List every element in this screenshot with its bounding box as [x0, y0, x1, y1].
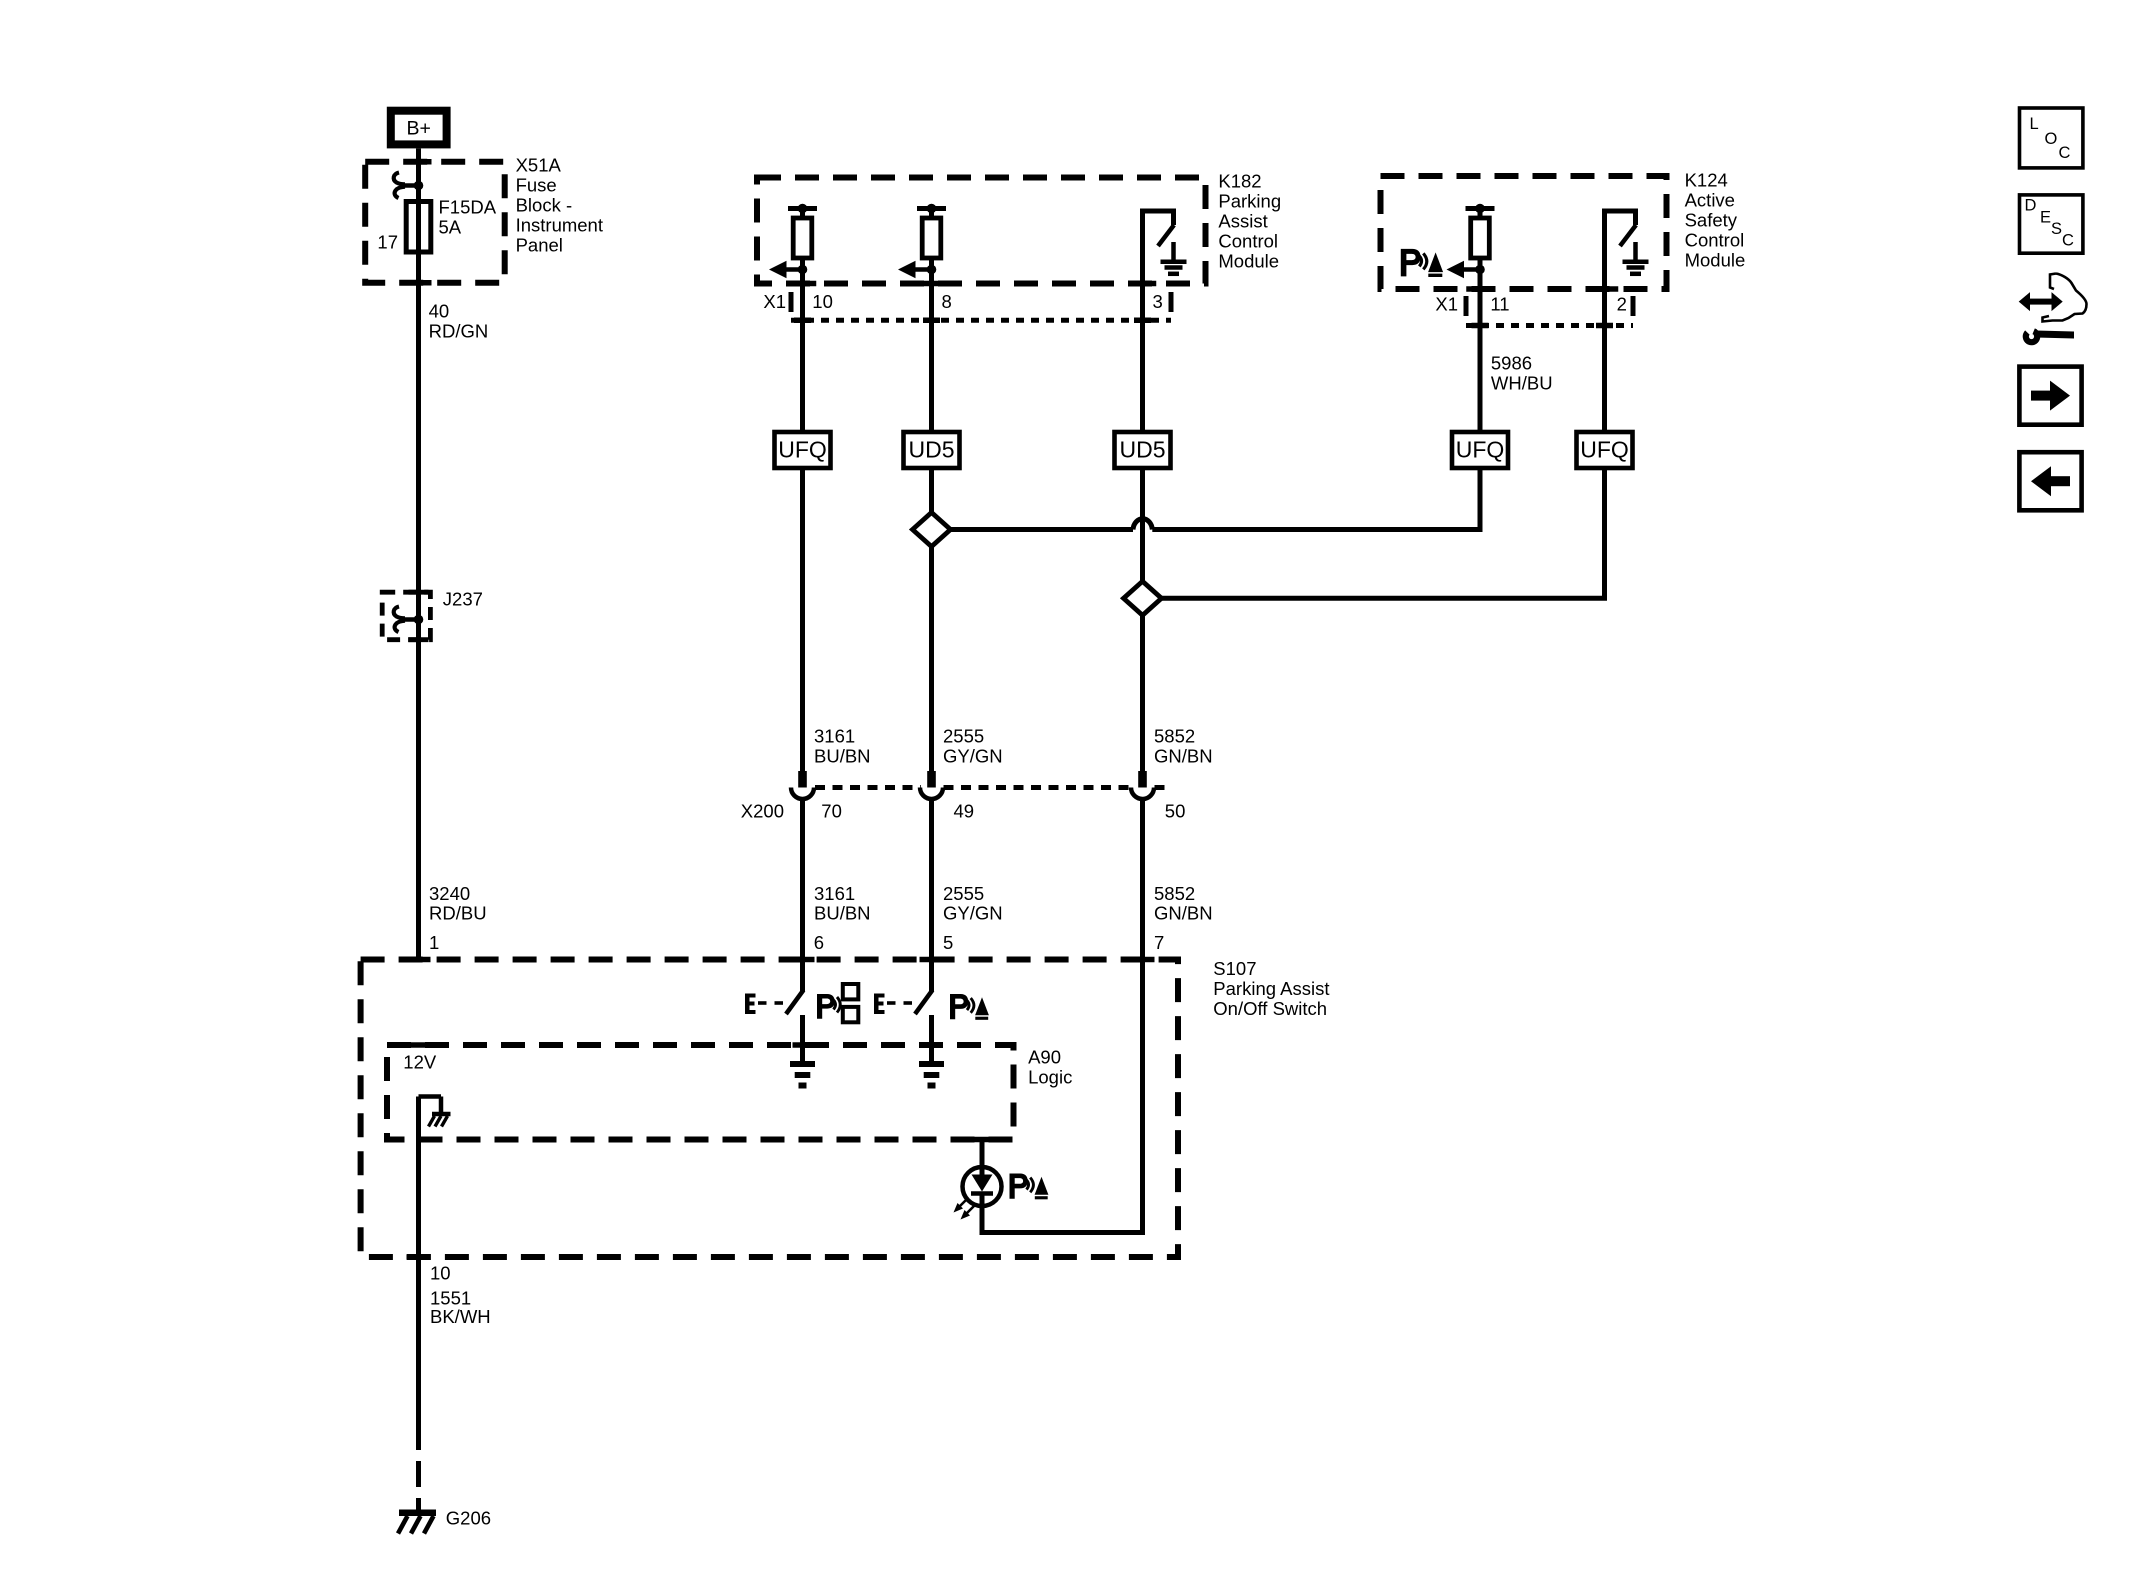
wire label 5852 GN/BN (lower): [1154, 883, 1213, 924]
output arrow K182 pin 8: [898, 261, 936, 279]
wire label 3240 RD/BU: [429, 883, 487, 924]
wire option label UD5 mid: [904, 432, 960, 468]
svg-text:GY/GN: GY/GN: [943, 903, 1003, 924]
splice diamond S1: [913, 513, 951, 547]
svg-text:10: 10: [430, 1263, 451, 1284]
svg-text:X1: X1: [763, 291, 786, 312]
svg-text:UFQ: UFQ: [778, 437, 827, 463]
svg-text:12V: 12V: [403, 1052, 437, 1073]
wire X200-70 to S107 pin 6: [800, 800, 805, 961]
fuse F15DA 5A: [406, 202, 431, 253]
icon P-sonar-triangle S107 switch 2: [950, 994, 989, 1020]
connector X200 terminal 49: [920, 771, 943, 799]
module K124 dashed box: [1381, 176, 1667, 289]
svg-text:On/Off Switch: On/Off Switch: [1213, 998, 1327, 1019]
internal switch to ground K182 pin 3: [1140, 209, 1174, 247]
svg-text:Active: Active: [1685, 190, 1735, 211]
svg-text:Module: Module: [1685, 250, 1746, 271]
svg-text:Control: Control: [1685, 230, 1745, 251]
terminal tap symbol X51A feed: [394, 173, 424, 199]
icon double arrow with wrench: [2019, 274, 2087, 346]
svg-text:1: 1: [429, 932, 439, 953]
S107 labels: [1213, 958, 1329, 1019]
internal driver resistor K182 pin 10: [788, 204, 817, 270]
svg-text:2555: 2555: [943, 726, 984, 747]
svg-text:RD/BU: RD/BU: [429, 903, 487, 924]
svg-text:GY/GN: GY/GN: [943, 746, 1003, 767]
connector X200 terminal 50: [1131, 771, 1154, 799]
svg-text:C: C: [2059, 144, 2071, 162]
internal switch to ground K124 pin 2: [1602, 209, 1636, 247]
junction J237 dashed box: [382, 592, 430, 640]
wire label 1551 BK/WH: [430, 1288, 491, 1327]
ground symbol under S107 camera: [919, 1064, 944, 1086]
wire K124 pin 2 to UFQ: [1602, 211, 1607, 432]
fuse block X51A dashed box: [365, 162, 505, 283]
svg-text:Logic: Logic: [1028, 1067, 1072, 1088]
chassis ground G206: [398, 1513, 436, 1534]
icon box arrow left: [2019, 452, 2081, 510]
E logic control symbol S107 camera: [874, 994, 912, 1015]
svg-text:BU/BN: BU/BN: [814, 903, 871, 924]
svg-text:3161: 3161: [814, 726, 855, 747]
A90 internal ground branch: [419, 1097, 442, 1113]
svg-text:D: D: [2025, 197, 2037, 215]
svg-text:BU/BN: BU/BN: [814, 746, 871, 767]
svg-text:2: 2: [1617, 294, 1627, 315]
svg-text:7: 7: [1154, 932, 1164, 953]
icon box DESC: [2020, 195, 2083, 253]
svg-text:GN/BN: GN/BN: [1154, 746, 1213, 767]
LED indicator: [963, 1167, 1002, 1206]
wire X200-50 to S107 pin 7: [1140, 800, 1145, 1233]
svg-text:Parking Assist: Parking Assist: [1213, 978, 1329, 999]
svg-text:10: 10: [812, 291, 833, 312]
battery feed B+ terminal: [391, 111, 447, 145]
svg-text:B+: B+: [406, 117, 430, 139]
svg-text:UD5: UD5: [1119, 437, 1165, 463]
wire UD5 right down through hop to splice S2: [1140, 468, 1145, 582]
wire label 2555 GY/GN (lower): [943, 883, 1003, 924]
svg-text:UD5: UD5: [908, 437, 954, 463]
pin label 12V: [403, 1052, 437, 1073]
wire option label UFQ k124-11: [1452, 432, 1508, 468]
svg-text:49: 49: [954, 801, 975, 822]
svg-text:3: 3: [1153, 291, 1163, 312]
svg-text:G206: G206: [446, 1508, 491, 1529]
output arrow K182 pin 10: [769, 261, 807, 279]
pin labels X1 10 8 3: [763, 291, 1162, 312]
horizontal wire S2 to K124 pin 2: [1162, 468, 1605, 601]
ground return wire A90 to pin 10: [416, 1097, 421, 1425]
svg-text:S: S: [2051, 220, 2062, 238]
wire K182 pin 10 to UFQ: [800, 270, 805, 433]
icon P-sonar-triangle LED: [1010, 1174, 1049, 1200]
svg-text:Module: Module: [1218, 251, 1279, 272]
wire K182 pin 8 to UD5: [929, 270, 934, 433]
svg-text:70: 70: [821, 801, 842, 822]
wire label 40 RD/GN: [429, 301, 489, 342]
wire label 2555 GY/GN (upper): [943, 726, 1003, 767]
pin numbers 1 6 5 7: [429, 932, 1164, 953]
logic module A90 dashed box: [387, 1045, 1014, 1140]
wire option label UFQ k124-2: [1577, 432, 1633, 468]
wire option label UD5 right: [1115, 432, 1171, 468]
splice diamond S2: [1124, 581, 1162, 615]
svg-text:Block -: Block -: [516, 195, 573, 216]
internal ground symbol K182 pin 3: [1161, 242, 1187, 274]
wire from B+ to S107 pin 1: [416, 149, 421, 960]
wire K182 pin 3 to UD5: [1140, 211, 1145, 432]
module K182 labels: [1218, 171, 1281, 272]
wire label 3161 BU/BN (lower): [814, 883, 871, 924]
svg-text:Safety: Safety: [1685, 210, 1738, 231]
icon box LOC: [2020, 108, 2083, 168]
svg-text:WH/BU: WH/BU: [1491, 372, 1553, 393]
svg-text:J237: J237: [443, 589, 483, 610]
svg-text:5852: 5852: [1154, 883, 1195, 904]
svg-text:UFQ: UFQ: [1456, 437, 1505, 463]
svg-text:Parking: Parking: [1218, 191, 1281, 212]
wire X200-49 to S107 pin 5: [929, 800, 934, 961]
wire label 5852 GN/BN (upper): [1154, 726, 1213, 767]
module K124 labels: [1685, 170, 1746, 271]
A90 chassis ground symbol: [429, 1114, 451, 1127]
connector X200 labels: [741, 801, 1186, 822]
wire K124 pin 11 to UFQ: [1478, 270, 1483, 433]
internal driver resistor K124 pin 11: [1466, 204, 1495, 270]
connector X200 terminal 70: [791, 771, 814, 799]
connector X1 strip of K182: [789, 284, 1171, 321]
svg-text:6: 6: [814, 932, 824, 953]
A90 labels: [1028, 1047, 1072, 1088]
wire A90 to LED: [980, 1140, 985, 1168]
wire splice S1 to X200 pin 49: [929, 547, 934, 772]
switch S107 dashed box: [361, 960, 1178, 1258]
internal driver resistor K182 pin 8: [917, 204, 946, 270]
svg-text:E: E: [2040, 209, 2051, 227]
pin labels X1 11 2: [1435, 294, 1627, 315]
connector X1 strip of K124: [1466, 289, 1633, 326]
svg-text:11: 11: [1490, 294, 1509, 315]
svg-text:Control: Control: [1218, 231, 1278, 252]
E logic control symbol S107 main: [745, 994, 783, 1015]
svg-text:UFQ: UFQ: [1580, 437, 1629, 463]
svg-text:5852: 5852: [1154, 726, 1195, 747]
svg-text:40: 40: [429, 301, 450, 322]
svg-text:2555: 2555: [943, 883, 984, 904]
svg-text:L: L: [2030, 115, 2039, 133]
label G206: [446, 1508, 491, 1529]
svg-text:X200: X200: [741, 801, 784, 822]
svg-text:S107: S107: [1213, 958, 1256, 979]
svg-text:GN/BN: GN/BN: [1154, 903, 1213, 924]
svg-text:A90: A90: [1028, 1047, 1061, 1068]
svg-text:5: 5: [943, 932, 953, 953]
svg-text:8: 8: [942, 291, 952, 312]
module K182 dashed box: [757, 178, 1206, 284]
switch contact S107 camera: [915, 960, 933, 1062]
icon box arrow right: [2019, 367, 2081, 425]
LED emission arrows: [954, 1199, 975, 1220]
svg-text:Assist: Assist: [1218, 211, 1267, 232]
switch contact S107 main: [786, 960, 804, 1062]
wire label 5986 WH/BU: [1491, 352, 1553, 393]
svg-text:X51A: X51A: [516, 155, 562, 176]
svg-text:3240: 3240: [429, 883, 470, 904]
svg-text:K124: K124: [1685, 170, 1728, 191]
wire UFQ left down to X200 pin 70: [800, 468, 805, 772]
terminal tap symbol J237: [394, 607, 424, 633]
svg-text:Fuse: Fuse: [516, 175, 557, 196]
horizontal wire S1 to K124 pin 11 with hop: [950, 468, 1480, 532]
wire label 3161 BU/BN (upper): [814, 726, 871, 767]
fuse block labels: [377, 155, 603, 256]
svg-text:50: 50: [1165, 801, 1186, 822]
wire splice S2 to X200 pin 50: [1140, 615, 1145, 771]
svg-text:17: 17: [377, 232, 398, 253]
svg-text:O: O: [2045, 130, 2058, 148]
svg-text:Panel: Panel: [516, 235, 563, 256]
wire UD5 mid down to splice: [929, 468, 934, 513]
svg-text:5A: 5A: [439, 217, 462, 238]
svg-text:C: C: [2062, 232, 2074, 250]
wire LED to pin 7 leg: [980, 1206, 1146, 1233]
icon P-sonar-triangle K124 internal: [1401, 249, 1443, 277]
svg-text:Instrument: Instrument: [516, 215, 603, 236]
in-line connector X200 dashed line: [815, 785, 1168, 790]
svg-text:5986: 5986: [1491, 352, 1532, 373]
svg-text:K182: K182: [1218, 171, 1261, 192]
internal ground symbol K124 pin 2: [1623, 242, 1649, 274]
dashed wire to ground G206: [416, 1424, 421, 1510]
svg-text:BK/WH: BK/WH: [430, 1306, 491, 1327]
output arrow K124 pin 11: [1447, 261, 1485, 279]
label J237: [443, 589, 483, 610]
svg-text:F15DA: F15DA: [439, 197, 497, 218]
pin label 10: [430, 1263, 451, 1284]
ground symbol under S107 main: [790, 1064, 815, 1086]
svg-text:X1: X1: [1435, 294, 1458, 315]
svg-text:3161: 3161: [814, 883, 855, 904]
svg-text:RD/GN: RD/GN: [429, 321, 489, 342]
icon P-sonar-squares S107 switch 1: [817, 984, 858, 1022]
wire option label UFQ left: [775, 432, 831, 468]
